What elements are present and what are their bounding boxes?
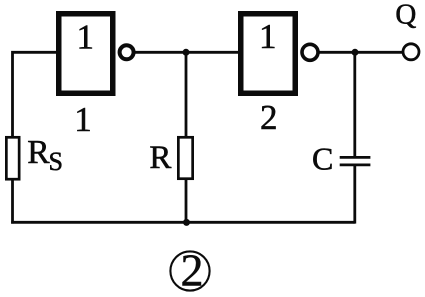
output terminal Q open circle [403, 44, 419, 60]
resistor R_S body [6, 137, 19, 179]
svg-text:S: S [49, 147, 63, 176]
capacitor C top plate [340, 156, 371, 159]
resistor R body [178, 137, 192, 178]
svg-text:2: 2 [181, 245, 204, 296]
wire: junction down to capacitor top plate [353, 52, 356, 157]
wire: resistor R bottom to rail [185, 180, 188, 224]
node: output junction to capacitor [352, 49, 359, 56]
wire: input of gate 1 from left corner [13, 52, 59, 137]
op-amp U2 inverter gate 2 body [241, 14, 296, 94]
svg-text:R: R [149, 140, 171, 176]
svg-text:2: 2 [260, 98, 278, 137]
svg-text:1: 1 [259, 17, 277, 56]
svg-text:Q: Q [395, 0, 416, 31]
wire: bottom rail [11, 221, 355, 224]
op-amp U1 inverter gate 1 body [59, 14, 113, 94]
node: bottom rail junction [183, 219, 190, 226]
wire: junction down to resistor R [185, 52, 188, 137]
figure caption circle [170, 251, 209, 290]
svg-text:R: R [27, 134, 50, 171]
svg-text:1: 1 [74, 100, 92, 139]
svg-text:1: 1 [76, 17, 94, 56]
capacitor C bottom plate [340, 164, 371, 167]
wire: gate 1 output to gate 2 input [134, 51, 239, 54]
svg-text:C: C [312, 140, 333, 176]
wire: R_S bottom to bottom rail [11, 180, 14, 224]
gate 2 inversion bubble [302, 44, 318, 60]
wire: gate 2 output to terminal Q [318, 51, 402, 54]
node: feedback junction top middle [183, 49, 190, 56]
gate 1 inversion bubble [120, 45, 134, 59]
wire: capacitor bottom plate to rail [353, 165, 356, 223]
